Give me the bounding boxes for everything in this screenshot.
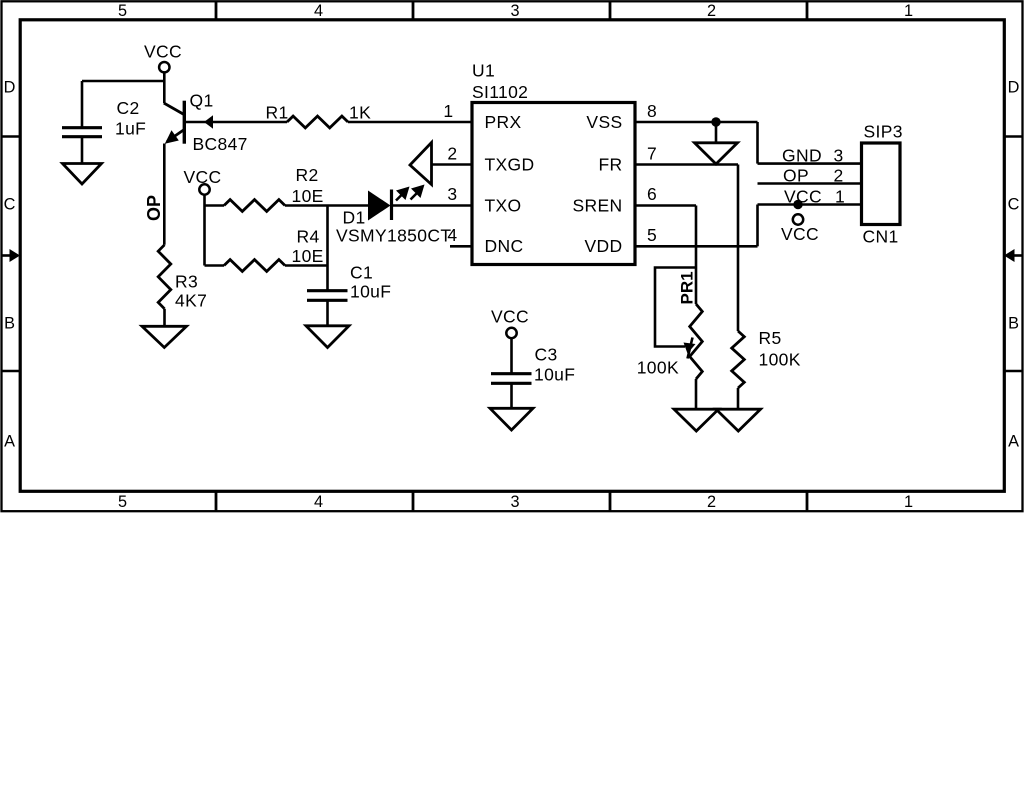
svg-text:3: 3 (510, 493, 519, 511)
wire R4 to node (285, 264, 328, 267)
svg-text:4K7: 4K7 (175, 291, 207, 311)
wire R3 to ground (163, 309, 166, 326)
right band row separator D|C (1005, 135, 1021, 137)
wire VCC row to connector pin 1 (758, 203, 862, 206)
top band zone separator 2|1 (806, 2, 809, 19)
svg-text:10E: 10E (292, 246, 324, 266)
svg-text:4: 4 (314, 493, 323, 511)
svg-text:7: 7 (647, 144, 657, 164)
IC U1 SI1102 (472, 61, 635, 265)
svg-text:10uF: 10uF (350, 282, 391, 302)
capacitor C3 10uF (491, 345, 575, 385)
ground at R3 (142, 326, 187, 347)
wire R2 to D1 node (285, 204, 368, 207)
top band zone separator 3|2 (609, 2, 612, 19)
junction dot on VSS wire (711, 117, 720, 126)
light pipe triangle into TXGD (410, 143, 432, 185)
wire C1 to ground (326, 300, 329, 325)
svg-text:C1: C1 (350, 262, 373, 282)
svg-text:BC847: BC847 (193, 134, 248, 154)
bottom band zone separator 3|2 (609, 492, 612, 510)
svg-text:D: D (1008, 78, 1020, 96)
svg-text:A: A (4, 433, 15, 451)
capacitor C1 10uF (307, 262, 391, 301)
svg-text:1K: 1K (349, 102, 371, 122)
svg-text:GND: GND (782, 146, 822, 166)
wire C2 bottom lead (81, 137, 84, 163)
svg-text:3: 3 (447, 184, 457, 204)
svg-text:100K: 100K (759, 350, 801, 370)
svg-text:10uF: 10uF (534, 364, 575, 384)
svg-text:SREN: SREN (572, 195, 622, 215)
svg-text:VSS: VSS (586, 112, 622, 132)
D1 emission arrow 2 (411, 185, 425, 200)
bottom band zone separator 5|4 (215, 492, 218, 510)
transistor Q1 BC847 (164, 91, 248, 154)
svg-text:SIP3: SIP3 (864, 122, 903, 142)
svg-text:U1: U1 (472, 61, 495, 81)
connector CN1 SIP3 (862, 122, 903, 247)
svg-text:VCC: VCC (781, 224, 819, 244)
wire junction to ground (715, 122, 718, 143)
wire SREN down to PR1 (695, 206, 698, 305)
wire VSS corner down (756, 122, 759, 164)
wire Q1 base to R1 (184, 121, 287, 124)
svg-text:2: 2 (707, 493, 716, 511)
left edge centering arrow (3, 249, 21, 262)
svg-text:Q1: Q1 (190, 91, 214, 111)
D1 emission arrow 1 (396, 187, 410, 201)
svg-text:TXGD: TXGD (485, 154, 535, 174)
svg-text:6: 6 (647, 184, 657, 204)
svg-text:VDD: VDD (585, 236, 623, 256)
right edge centering arrow (1004, 249, 1022, 262)
resistor R5 100K (732, 328, 801, 388)
ground at C2 (63, 164, 102, 185)
svg-text:TXO: TXO (485, 195, 522, 215)
svg-text:R5: R5 (759, 328, 782, 348)
bottom band zone separator 2|1 (806, 492, 809, 510)
svg-text:R3: R3 (175, 272, 198, 292)
svg-text:CN1: CN1 (863, 227, 899, 247)
wire U1 pin 5 VDD (635, 245, 758, 248)
power symbol VCC at Q1 collector (144, 42, 182, 73)
svg-text:PRX: PRX (485, 112, 522, 132)
wire C2 top lead (81, 81, 84, 127)
svg-text:10E: 10E (292, 186, 324, 206)
signal-flow arrowhead on base wire (204, 115, 213, 128)
svg-text:8: 8 (647, 101, 657, 121)
ground at R5 (716, 409, 761, 431)
svg-text:C2: C2 (117, 98, 140, 118)
svg-text:B: B (1008, 315, 1019, 333)
outer border frame (2, 1, 1023, 511)
svg-text:R2: R2 (296, 165, 319, 185)
svg-text:3: 3 (510, 2, 519, 20)
svg-text:2: 2 (707, 2, 716, 20)
wire VCC circle to collector rail (163, 72, 166, 81)
svg-text:2: 2 (834, 165, 844, 185)
wire Q1 collector vertical (163, 81, 166, 103)
resistor R4 10E (224, 227, 324, 272)
wire PR1 to ground (695, 379, 698, 409)
svg-text:VCC: VCC (491, 307, 529, 327)
wire R1 to U1 pin 1 (348, 121, 472, 124)
resistor R2 10E (224, 165, 324, 212)
wire U1 pin 8 VSS to GND net (635, 121, 758, 124)
svg-text:OP: OP (783, 165, 809, 185)
svg-text:3: 3 (834, 146, 844, 166)
power symbol VCC at C3 (491, 307, 529, 339)
ground at VSS (695, 143, 738, 164)
ground at PR1 (674, 409, 719, 431)
ground at C1 (306, 326, 349, 348)
wire to R4 left (205, 264, 225, 267)
svg-text:1uF: 1uF (115, 119, 146, 139)
svg-text:4: 4 (447, 225, 457, 245)
svg-text:1: 1 (443, 101, 453, 121)
svg-text:FR: FR (598, 154, 622, 174)
svg-text:1: 1 (904, 2, 913, 20)
power symbol VCC at R2/R4 (184, 167, 222, 195)
svg-text:C: C (1008, 196, 1020, 214)
left band row separator D|C (3, 135, 20, 137)
svg-text:2: 2 (447, 144, 457, 164)
wire GND row to connector pin 3 (758, 162, 862, 165)
wire R5 to ground (737, 388, 740, 409)
resistor R3 4K7 (158, 245, 207, 311)
svg-text:R1: R1 (266, 102, 289, 122)
svg-text:1: 1 (835, 186, 845, 206)
svg-text:D1: D1 (343, 207, 366, 227)
wire VDD up to VCC row (756, 205, 759, 247)
svg-text:VCC: VCC (184, 167, 222, 187)
wire OP row to connector pin 2 (758, 182, 862, 185)
ground at C3 (490, 408, 533, 430)
wire VCC to R2/R4 left rail (203, 195, 206, 266)
resistor R1 1K (266, 102, 372, 128)
svg-text:OP: OP (144, 195, 164, 221)
wire horizontal VCC rail to C2 (82, 80, 164, 83)
right band row separator B|A (1005, 370, 1021, 372)
left band row separator B|A (3, 370, 20, 372)
svg-text:C: C (4, 196, 16, 214)
potentiometer PR1 100K (637, 268, 703, 380)
wire VCC to C3 (510, 338, 513, 374)
diode D1 VSMY1850CT (336, 190, 451, 246)
svg-text:A: A (1008, 433, 1019, 451)
svg-text:4: 4 (314, 2, 323, 20)
wire U1 pin 6 SREN (635, 204, 696, 207)
svg-text:5: 5 (118, 493, 127, 511)
svg-text:5: 5 (118, 2, 127, 20)
stub U1 pin 4 DNC (450, 245, 472, 248)
bottom band zone separator 4|3 (412, 492, 415, 510)
svg-text:VCC: VCC (144, 42, 182, 62)
svg-text:VCC: VCC (784, 186, 822, 206)
power symbol VCC at connector (781, 214, 819, 244)
wire Q1 emitter net OP vertical (163, 144, 166, 245)
svg-text:1: 1 (904, 493, 913, 511)
wire D1 cathode to U1 pin 3 (392, 204, 473, 207)
wire U1 pin 7 FR (635, 163, 738, 166)
junction dot on VCC row (793, 200, 802, 209)
svg-text:SI1102: SI1102 (472, 82, 528, 102)
svg-text:D: D (4, 78, 16, 96)
inner border frame (20, 20, 1004, 492)
top band zone separator 5|4 (215, 2, 218, 19)
wire to R2 left (205, 204, 225, 207)
wire FR down to R5 (737, 165, 740, 332)
svg-text:PR1: PR1 (678, 271, 697, 304)
capacitor C2 (62, 98, 146, 139)
wire node vertical R2 row to C1 (326, 206, 329, 291)
svg-text:DNC: DNC (485, 236, 524, 256)
top band zone separator 4|3 (412, 2, 415, 19)
svg-text:100K: 100K (637, 358, 679, 378)
svg-text:5: 5 (647, 225, 657, 245)
wire triangle to U1 pin 2 (432, 163, 473, 166)
svg-text:C3: C3 (535, 345, 558, 365)
wire C3 to ground (510, 383, 513, 408)
svg-text:VSMY1850CT: VSMY1850CT (336, 225, 451, 245)
svg-text:R4: R4 (297, 227, 320, 247)
svg-text:B: B (4, 315, 15, 333)
